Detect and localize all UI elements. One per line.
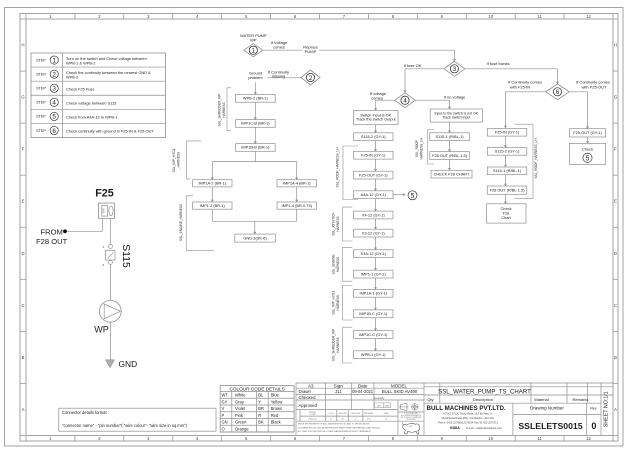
svg-text:S115-1 (R/BL-1): S115-1 (R/BL-1) [436, 134, 465, 139]
svg-text:4: 4 [52, 100, 56, 107]
svg-text:G: G [614, 95, 617, 100]
svg-text:_HARNESS: _HARNESS [176, 152, 180, 170]
svg-text:IMP1A-2 (BR-1): IMP1A-2 (BR-1) [198, 181, 226, 186]
svg-text:SSL_SHREDDER_WP: SSL_SHREDDER_WP [331, 329, 335, 362]
svg-text:Drawn: Drawn [299, 389, 312, 394]
svg-text:>4000: >4000 [383, 412, 388, 415]
svg-text:12: 12 [586, 14, 591, 19]
svg-text:Green: Green [235, 420, 247, 425]
svg-text:D: D [614, 251, 617, 256]
svg-text:1: 1 [252, 48, 256, 55]
svg-text:Black: Black [271, 420, 282, 425]
svg-text:Red: Red [271, 413, 279, 418]
svg-text:SSL_ROOF_HARNESS_LH: SSL_ROOF_HARNESS_LH [336, 147, 340, 188]
svg-text:SSL_ROOF_HARNESS_LH: SSL_ROOF_HARNESS_LH [534, 138, 538, 179]
svg-text:B: B [22, 355, 25, 360]
svg-text:Check: Check [582, 146, 593, 151]
svg-text:Check F25 Fuse: Check F25 Fuse [66, 86, 95, 91]
svg-text:X3A-12 (GY-1): X3A-12 (GY-1) [361, 251, 387, 256]
svg-text:Rev: Rev [590, 406, 596, 410]
svg-text:J11: J11 [335, 389, 342, 394]
svg-text:INDIA: INDIA [450, 426, 460, 430]
svg-text:HARNESS_LH: HARNESS_LH [420, 137, 424, 159]
svg-text:A: A [22, 407, 25, 412]
svg-text:10: 10 [488, 14, 493, 19]
svg-text:STEP: STEP [36, 87, 46, 91]
svg-text:Check from A4A-12 to WPB-1: Check from A4A-12 to WPB-1 [66, 115, 117, 120]
svg-text:"connector name" - "pin numbe: "connector name" - "pin number"( "wire c… [62, 423, 188, 428]
svg-text:SSL_JOYSTICK: SSL_JOYSTICK [331, 211, 335, 235]
svg-text:Phone: 0422-2276856,2276164 Fa: Phone: 0422-2276856,2276164 Fax: 91-422-… [438, 422, 498, 425]
svg-text:Material: Material [534, 397, 548, 402]
svg-text:11: 11 [537, 436, 542, 441]
svg-text:IMP1C-B (BR-1): IMP1C-B (BR-1) [241, 121, 270, 126]
svg-text:P: P [222, 413, 225, 418]
svg-text:6: 6 [52, 128, 56, 135]
svg-text:±3: ±3 [385, 418, 387, 420]
svg-text:DOCUMENT SHOULD NOT BE REPRODU: DOCUMENT SHOULD NOT BE REPRODUCED IN ANY… [298, 426, 381, 429]
svg-text:F: F [22, 147, 25, 152]
svg-text:GN: GN [222, 420, 228, 425]
svg-text:±2: ±2 [354, 418, 356, 420]
svg-text:CHECK F28 CHART: CHECK F28 CHART [434, 171, 470, 176]
svg-text:H: H [614, 43, 617, 48]
svg-text:S115-2 (GY-1): S115-2 (GY-1) [361, 134, 386, 139]
svg-text:11: 11 [537, 14, 542, 19]
svg-text:Blue: Blue [271, 393, 280, 398]
svg-text:G: G [21, 95, 24, 100]
svg-text:3: 3 [453, 66, 457, 73]
svg-text:Drawing Number: Drawing Number [530, 406, 564, 411]
svg-text:Track switch Input: Track switch Input [442, 116, 470, 120]
svg-text:IMP1-4 (BR-0.75): IMP1-4 (BR-0.75) [282, 203, 313, 208]
svg-text:HARNESS: HARNESS [336, 216, 340, 231]
svg-text:0-500: 0-500 [329, 413, 334, 415]
svg-text:comes: comes [273, 45, 285, 50]
svg-text:09-04-2021: 09-04-2021 [352, 389, 374, 394]
svg-text:THIS IS THE PROPERTY OF BULL M: THIS IS THE PROPERTY OF BULL MACHINES PV… [298, 423, 370, 426]
svg-text:4: 4 [403, 98, 407, 105]
svg-text:FROM: FROM [41, 227, 63, 236]
svg-text:SSL_IMP_HYD1: SSL_IMP_HYD1 [172, 148, 176, 172]
svg-text:Description: Description [473, 397, 493, 402]
svg-text:H: H [21, 43, 24, 48]
svg-text:COLOUR CODE DETAILS: COLOUR CODE DETAILS [229, 386, 284, 391]
svg-text:12: 12 [586, 436, 591, 441]
svg-text:A4A-12 (GY-1): A4A-12 (GY-1) [361, 192, 387, 197]
svg-text:Date: Date [358, 383, 368, 388]
svg-text:NOT USED FOR THE PURPOSE OTHER: NOT USED FOR THE PURPOSE OTHER THAN INTE… [298, 430, 372, 433]
svg-text:F28 OUT (R/BL-1.5): F28 OUT (R/BL-1.5) [490, 187, 526, 192]
svg-text:GY: GY [222, 399, 228, 404]
svg-text:5: 5 [586, 155, 590, 162]
svg-text:WT: WT [222, 393, 229, 398]
svg-text:C: C [21, 303, 24, 308]
svg-text:MODEL: MODEL [391, 383, 408, 388]
svg-text:Pink: Pink [235, 413, 244, 418]
svg-text:GND: GND [119, 359, 138, 369]
svg-text:F25-OUT (GY-1): F25-OUT (GY-1) [573, 130, 602, 135]
svg-text:SSL_ROOF: SSL_ROOF [415, 140, 419, 157]
svg-text:with F25-OUT: with F25-OUT [582, 84, 607, 89]
svg-text:BULL SKID AV490: BULL SKID AV490 [382, 389, 418, 394]
svg-text:SSL_IMP_HYD1: SSL_IMP_HYD1 [331, 291, 335, 315]
svg-text:SHEET NO:1/1: SHEET NO:1/1 [603, 391, 609, 427]
svg-text:D: D [21, 251, 24, 256]
svg-text:SPECIFIED: SPECIFIED [407, 419, 417, 421]
svg-text:Sign: Sign [334, 383, 344, 388]
svg-text:500-1000: 500-1000 [339, 413, 347, 415]
svg-text:If fuse bursts: If fuse bursts [487, 61, 510, 66]
svg-text:STEP: STEP [36, 101, 46, 105]
svg-text:SSL_ENGINE: SSL_ENGINE [331, 254, 335, 274]
svg-text:SSL_SHREDDER_WP: SSL_SHREDDER_WP [217, 94, 221, 127]
svg-text:SSL_ENGINE_HARNESS: SSL_ENGINE_HARNESS [179, 204, 183, 241]
svg-text:1: 1 [52, 57, 56, 64]
svg-text:F25-IN (GY-1): F25-IN (GY-1) [495, 130, 520, 135]
svg-text:GND-3(SK-6): GND-3(SK-6) [243, 235, 267, 240]
svg-text:with F25-IN: with F25-IN [510, 84, 531, 89]
svg-text:±1.5: ±1.5 [341, 418, 345, 420]
svg-text:Check continuity with ground i: Check continuity with ground in F25-IN &… [66, 129, 154, 134]
svg-text:Check voltage between S115: Check voltage between S115 [66, 100, 116, 105]
svg-text:STEP: STEP [36, 129, 46, 133]
svg-text:IMP1B-B (BR-1): IMP1B-B (BR-1) [241, 145, 270, 150]
svg-text:F28 OUT: F28 OUT [36, 237, 68, 246]
svg-text:Connector details format :: Connector details format : [62, 410, 109, 415]
svg-text:F: F [614, 147, 617, 152]
svg-text:Brown: Brown [271, 406, 283, 411]
svg-text:WPB-2 (BR-1): WPB-2 (BR-1) [243, 96, 269, 101]
svg-text:BULL MACHINES PVT.LTD.: BULL MACHINES PVT.LTD. [427, 405, 506, 412]
svg-text:F28 OUT (R/BL-1.5): F28 OUT (R/BL-1.5) [432, 153, 468, 158]
svg-text:Yellow: Yellow [271, 399, 283, 404]
svg-text:2000-4000: 2000-4000 [364, 413, 373, 415]
svg-text:BR: BR [258, 406, 264, 411]
svg-text:5: 5 [411, 193, 415, 200]
svg-text:IMP1-1 (GY-1): IMP1-1 (GY-1) [361, 271, 387, 276]
svg-text:White: White [235, 393, 246, 398]
svg-text:BK: BK [258, 420, 264, 425]
svg-text:E-mail : md@bullmachines.com: E-mail : md@bullmachines.com [466, 427, 501, 430]
svg-text:S115-2 (GY-1): S115-2 (GY-1) [495, 149, 520, 154]
svg-text:F25-OUT (GY-1): F25-OUT (GY-1) [359, 172, 388, 177]
svg-text:X3-12 (GY-1): X3-12 (GY-1) [362, 230, 385, 235]
svg-text:WPB-2: WPB-2 [66, 74, 78, 79]
svg-text:HARNESS: HARNESS [336, 295, 340, 310]
svg-text:IMP1B-C (GY-1): IMP1B-C (GY-1) [359, 311, 388, 316]
svg-text:WPB-1 (GY-1): WPB-1 (GY-1) [361, 352, 386, 357]
svg-text:Chart: Chart [501, 215, 511, 220]
svg-text:A: A [614, 407, 617, 412]
svg-text:IMP1A-4 (BR-1): IMP1A-4 (BR-1) [283, 181, 311, 186]
svg-text:E: E [614, 199, 617, 204]
svg-text:1000-2000: 1000-2000 [351, 413, 360, 415]
svg-text:Tolerance: Tolerance [308, 418, 318, 420]
svg-text:Check the continuity between t: Check the continuity between the nearest… [66, 70, 151, 75]
svg-text:5: 5 [52, 114, 56, 121]
svg-text:C: C [614, 303, 617, 308]
svg-text:HARNESS: HARNESS [336, 257, 340, 272]
svg-text:If fuse OK: If fuse OK [404, 63, 422, 68]
svg-text:PUMP: PUMP [305, 49, 317, 54]
svg-text:Violet: Violet [235, 406, 246, 411]
svg-text:WPB-1 & WPB-2: WPB-1 & WPB-2 [66, 60, 95, 65]
svg-text:2: 2 [52, 71, 56, 78]
svg-text:IMP1A-1 (GY-1): IMP1A-1 (GY-1) [359, 291, 387, 296]
svg-text:B: B [614, 355, 617, 360]
svg-text:3: 3 [52, 86, 56, 93]
svg-text:WP: WP [250, 38, 257, 43]
svg-text:Checked: Checked [299, 395, 317, 400]
svg-text:cm: cm [377, 404, 380, 407]
svg-text:S115: S115 [120, 244, 132, 268]
svg-text:SSLELETS0015: SSLELETS0015 [518, 421, 582, 431]
svg-text:STEP: STEP [36, 115, 46, 119]
svg-text:mm: mm [385, 404, 389, 407]
svg-text:Assembly: Assembly [374, 397, 386, 400]
svg-text:Y: Y [258, 399, 261, 404]
svg-text:F25: F25 [95, 188, 114, 200]
svg-text:HARNESS: HARNESS [222, 102, 226, 117]
svg-text:IMP1C-C (GY-1): IMP1C-C (GY-1) [359, 332, 388, 337]
svg-text:A3: A3 [308, 383, 314, 388]
svg-text:SSL_WATER_PUMP_TS_CHART: SSL_WATER_PUMP_TS_CHART [438, 388, 531, 395]
svg-text:F25-IN (GY-1): F25-IN (GY-1) [361, 152, 386, 157]
svg-text:Approved: Approved [299, 403, 318, 408]
svg-text:Chinthamanipudur (PO), Coimbat: Chinthamanipudur (PO), Coimbatore - 641 … [442, 417, 495, 420]
svg-text:If no voltage: If no voltage [444, 94, 467, 99]
svg-text:Remarks: Remarks [572, 397, 588, 402]
svg-text:BL: BL [258, 393, 264, 398]
svg-text:HARNESS: HARNESS [336, 337, 340, 352]
svg-text:Gray: Gray [235, 399, 245, 404]
svg-text:STEP: STEP [36, 58, 46, 62]
svg-text:S115-1 (R/BL-1): S115-1 (R/BL-1) [493, 168, 522, 173]
svg-text:IMP1-2 (BR-1): IMP1-2 (BR-1) [200, 203, 226, 208]
svg-text:V: V [222, 406, 225, 411]
svg-text:O: O [222, 426, 225, 431]
svg-text:0: 0 [591, 421, 596, 431]
svg-text:±1: ±1 [330, 418, 332, 420]
svg-text:Orange: Orange [235, 426, 249, 431]
svg-text:±2.5: ±2.5 [367, 418, 371, 420]
svg-text:R: R [258, 413, 261, 418]
svg-text:6: 6 [556, 89, 560, 96]
svg-text:Track the switch Output: Track the switch Output [356, 118, 397, 122]
svg-text:Length: Length [310, 413, 316, 416]
svg-text:Qty: Qty [427, 397, 433, 402]
svg-text:WP: WP [94, 324, 109, 334]
svg-text:X4-12 (GY-1): X4-12 (GY-1) [362, 212, 385, 217]
svg-text:STEP: STEP [36, 72, 46, 76]
svg-text:E: E [22, 199, 25, 204]
svg-text:10: 10 [488, 436, 493, 441]
svg-text:S.F.NO.371/A, Trichy Road, L&T: S.F.NO.371/A, Trichy Road, L&T By Pass J… [443, 412, 493, 415]
svg-text:problem: problem [248, 75, 263, 80]
svg-text:10A: 10A [102, 208, 106, 213]
svg-text:2: 2 [309, 75, 313, 82]
